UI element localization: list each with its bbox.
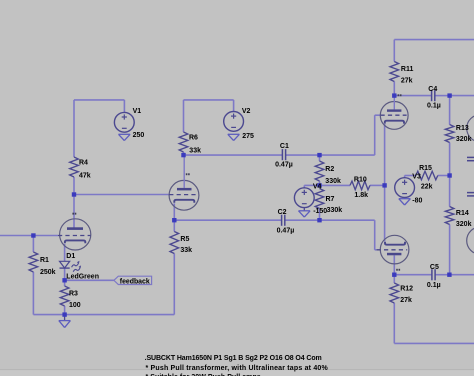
svg-text:LedGreen: LedGreen (66, 273, 99, 280)
svg-text:V1: V1 (133, 108, 142, 115)
svg-text:.SUBCKT Ham1650N P1 Sg1 B Sg2: .SUBCKT Ham1650N P1 Sg1 B Sg2 P2 O16 O8 … (145, 355, 322, 362)
svg-text:320k: 320k (456, 136, 472, 143)
svg-text:100: 100 (69, 302, 81, 309)
svg-text:V2: V2 (242, 108, 251, 115)
svg-text:C2: C2 (278, 209, 287, 216)
svg-text:275: 275 (242, 133, 254, 140)
svg-text:V4: V4 (313, 184, 322, 191)
svg-text:feedback: feedback (120, 278, 150, 285)
svg-text:C1: C1 (280, 143, 289, 150)
svg-text:0.47µ: 0.47µ (275, 162, 293, 169)
svg-text:-80: -80 (412, 198, 422, 205)
svg-text:R3: R3 (69, 290, 78, 297)
svg-text:27k: 27k (400, 297, 412, 304)
svg-text:33k: 33k (189, 147, 201, 154)
svg-text:R13: R13 (456, 125, 469, 132)
svg-text:0.1µ: 0.1µ (427, 103, 441, 110)
svg-text:47k: 47k (79, 173, 91, 180)
svg-text:R15: R15 (419, 165, 432, 172)
svg-text:R14: R14 (456, 210, 469, 217)
svg-text:250: 250 (133, 132, 145, 139)
svg-text:D1: D1 (66, 253, 75, 260)
svg-text:0.1µ: 0.1µ (427, 282, 441, 289)
svg-text:C5: C5 (430, 264, 439, 271)
svg-text:R5: R5 (180, 236, 189, 243)
svg-text:22k: 22k (421, 183, 433, 190)
svg-text:R6: R6 (189, 135, 198, 142)
svg-text:V3: V3 (412, 174, 421, 181)
svg-text:R10: R10 (354, 176, 367, 183)
svg-text:0.47µ: 0.47µ (277, 227, 295, 234)
svg-text:R4: R4 (79, 159, 88, 166)
svg-text:33k: 33k (180, 247, 192, 254)
svg-text:R12: R12 (400, 286, 413, 293)
svg-text:R2: R2 (325, 166, 334, 173)
svg-text:330k: 330k (325, 178, 341, 185)
svg-text:R1: R1 (40, 257, 49, 264)
svg-text:27k: 27k (401, 77, 413, 84)
svg-text:* Push Pull transformer, with: * Push Pull transformer, with Ultralinea… (146, 365, 329, 372)
svg-text:-150: -150 (313, 208, 327, 215)
svg-text:1.8k: 1.8k (354, 192, 368, 199)
svg-text:330k: 330k (327, 207, 343, 214)
svg-text:R7: R7 (326, 196, 335, 203)
svg-text:R11: R11 (401, 66, 414, 73)
svg-text:C4: C4 (428, 86, 437, 93)
svg-text:320k: 320k (456, 221, 472, 228)
svg-text:250k: 250k (40, 269, 56, 276)
